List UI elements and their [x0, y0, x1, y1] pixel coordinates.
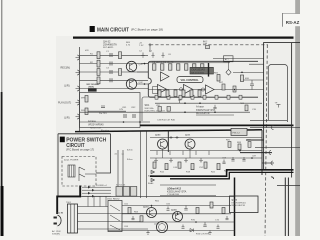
svg-text:KSDN74PD4U: KSDN74PD4U — [232, 202, 247, 204]
svg-text:Qn10: Qn10 — [143, 206, 149, 208]
transformer wire sec 4 — [78, 228, 149, 230]
svg-text:T601: T601 — [66, 202, 72, 204]
input connector bus wire — [79, 47, 81, 132]
transformer wire sec 3 — [78, 221, 141, 223]
svg-text:KSD1UHA0Y0TA: KSD1UHA0Y0TA — [167, 191, 187, 194]
wire right low — [240, 89, 264, 91]
heavy mains wire L shape — [57, 186, 80, 215]
right side signal box — [268, 65, 287, 123]
power switch 3 gang box a — [116, 187, 122, 197]
transistor Q605 — [173, 212, 183, 222]
mains vertical drops b — [93, 196, 95, 206]
section B frame — [58, 134, 111, 196]
diode row wire 1 — [82, 186, 111, 188]
resistor Rc3 — [196, 208, 199, 214]
dashed board outline right vertical — [265, 45, 267, 236]
transformer wire sec 1 — [78, 206, 109, 208]
capacitor C101 — [110, 53, 112, 57]
svg-text:Δ7mv: Δ7mv — [127, 158, 133, 161]
resistor R101 — [97, 52, 100, 59]
diode d24 — [92, 195, 95, 198]
svg-text:AC IN: AC IN — [57, 212, 63, 215]
resistor Rc2 — [140, 216, 143, 222]
svg-text:C33 R44 C37 R46: C33 R44 C37 R46 — [157, 120, 176, 122]
stub b3 — [182, 151, 184, 155]
VR trimmer 2 — [167, 107, 170, 112]
resistor Rb4 — [191, 164, 194, 170]
b section wire row 2 — [150, 157, 262, 159]
wire rec second — [80, 63, 149, 65]
svg-text:RS-AZ: RS-AZ — [286, 20, 300, 25]
svg-text:Resistor: Resistor — [101, 129, 109, 132]
main IC outline U1 — [148, 61, 258, 97]
svg-text:12A: 12A — [203, 42, 207, 45]
stub b1 — [156, 151, 158, 155]
connector jack J3 — [76, 86, 80, 91]
header A marker square — [90, 26, 95, 32]
varistor diamond D1 — [226, 70, 231, 76]
page left edge line — [1, 0, 3, 236]
power transformer winding bars — [71, 204, 74, 233]
transistor Q605 internals — [176, 214, 180, 220]
junction dot rlow — [234, 89, 236, 91]
junction dot q604 — [151, 205, 153, 207]
wire play low — [80, 121, 151, 123]
junction dot play low b — [139, 121, 141, 123]
chip function block 1 — [190, 67, 213, 74]
resistor R211 — [241, 75, 244, 82]
capacitor Cd4 — [217, 225, 220, 229]
op-amp A1 — [161, 72, 170, 81]
right wire row y147 — [255, 146, 300, 148]
b section wire row 1 — [150, 150, 262, 152]
power bus wire pair c — [140, 132, 142, 199]
IC bottom pin stub 8 — [239, 95, 242, 99]
IC bottom pin stub 1 — [155, 95, 158, 99]
right cluster junction dot — [239, 150, 241, 152]
zener diode bottom — [190, 229, 193, 232]
stub q604 — [151, 206, 153, 208]
wire right mid 1 — [213, 58, 264, 60]
IC top pin row resistor r2 — [161, 64, 164, 70]
svg-text:CXA1522AS: CXA1522AS — [191, 69, 205, 72]
junction dot play low a — [123, 121, 125, 123]
svg-text:MAIN CIRCUIT: MAIN CIRCUIT — [97, 27, 129, 33]
chip function block 2 — [177, 77, 203, 83]
svg-text:REGULATOR: REGULATOR — [196, 112, 210, 115]
op-amp A4 — [206, 85, 215, 94]
svg-text:(L/R): (L/R) — [64, 84, 70, 87]
mid resistor row R304 — [182, 90, 185, 97]
diode d21 — [88, 186, 91, 189]
stub r331 — [211, 202, 213, 206]
heavy power line step upper — [150, 170, 294, 176]
right cluster cap Ce1 — [231, 157, 234, 161]
section divider heavy line left — [75, 130, 262, 132]
ground symbol g2 — [169, 158, 173, 162]
power switch 3 gang box b — [123, 187, 129, 197]
junction dot mid2 — [199, 102, 201, 104]
connector jack J1 — [76, 55, 80, 60]
svg-text:(P.C.Board on page 17): (P.C.Board on page 17) — [66, 148, 94, 152]
ground symbol g4 — [199, 158, 203, 162]
diode row wire 4 — [82, 195, 111, 197]
regulator label underline — [196, 114, 234, 116]
resistor Rc1 — [128, 208, 131, 214]
mid resistor row R301 — [158, 90, 161, 97]
svg-text:Qn04: Qn04 — [171, 208, 177, 211]
transistor Q12 emitter stub — [189, 149, 191, 158]
capacitor Cc1 — [184, 206, 187, 211]
svg-text:50/60Hz: 50/60Hz — [52, 233, 60, 235]
wire play mid — [88, 110, 126, 112]
svg-text:900744th: 900744th — [145, 107, 155, 110]
wire into right vertical — [249, 63, 264, 65]
op-amp A2 — [158, 85, 167, 95]
capacitor C202 to ground — [151, 53, 154, 58]
svg-text:1S1588 ×4: 1S1588 ×4 — [96, 184, 107, 187]
mid resistor row R306 — [198, 90, 201, 97]
stub b4 — [195, 151, 197, 155]
junction dot bus222 — [195, 221, 197, 223]
capacitor C104 — [110, 78, 112, 82]
right wire row y127 — [250, 127, 300, 129]
transistor Q11 emitter stub — [162, 149, 164, 158]
TP stub mid — [178, 100, 181, 103]
right cluster resistor Re3 — [248, 142, 251, 148]
resistor R213 — [233, 86, 236, 92]
IC left pin wire 2 — [137, 71, 149, 73]
diode Db2 — [151, 178, 155, 182]
svg-text:FET AMPL: FET AMPL — [103, 46, 114, 49]
header B marker square — [60, 137, 65, 143]
right border vertical wire — [291, 43, 293, 178]
resistor Rb3 — [178, 162, 181, 168]
relay wire out — [85, 173, 96, 175]
right bottom wire — [277, 185, 300, 187]
transistor Q1 internals — [130, 64, 134, 72]
IC bottom pin stub 2 — [167, 95, 170, 99]
svg-text:S1 S2 S3: S1 S2 S3 — [116, 185, 126, 187]
connector jack J2 — [76, 70, 80, 75]
wire rec third — [80, 71, 149, 73]
resistor R103 — [97, 69, 100, 76]
resistor R210 — [217, 75, 220, 82]
rectifier block box — [108, 201, 122, 232]
wire dashed feed down — [149, 45, 151, 52]
capacitor Cd3 — [182, 225, 185, 229]
capacitor C110 — [101, 106, 105, 108]
svg-text:MIC SIGNAL: MIC SIGNAL — [87, 83, 101, 86]
op-amp A3 — [184, 85, 193, 95]
svg-text:Δ7em: Δ7em — [127, 149, 133, 152]
regulator output stub — [243, 213, 245, 231]
mid resistor row R303 — [174, 90, 177, 97]
svg-text:KSDN7UA0Y0TA: KSDN7UA0Y0TA — [196, 109, 216, 112]
connector jack J5 — [76, 114, 80, 119]
play section box — [80, 93, 141, 128]
power bus wire pair d — [146, 132, 148, 199]
transformer wire sec 2 — [78, 213, 149, 215]
power bus wire pair b — [122, 150, 124, 187]
right vertical rail b — [287, 178, 289, 237]
svg-text:Δ5A4: Δ5A4 — [148, 182, 154, 185]
IC top pin row resistor r4 — [177, 64, 180, 70]
mid resistor row R305 — [190, 90, 193, 97]
resistor R110 — [85, 96, 88, 103]
transistor Q2 internals — [130, 81, 134, 89]
resistor Rc4 — [210, 202, 213, 208]
right wire row y140 — [246, 139, 264, 141]
right cluster junction dot2 — [251, 157, 253, 159]
wire op-amp out row — [193, 88, 206, 90]
rectifier internal diagonals — [110, 205, 120, 230]
svg-text:(L/R): (L/R) — [64, 116, 70, 119]
mains vertical drops a — [87, 196, 89, 206]
right wire row y163 — [262, 162, 274, 164]
IC bottom pin stub 4 — [191, 95, 194, 99]
transistor Q606 inner — [159, 224, 166, 231]
page left edge darkest bottom band — [1, 186, 4, 236]
IC top pin row resistor r6 — [193, 64, 196, 70]
wire IC top bus — [149, 62, 231, 64]
resistor R102 — [97, 60, 100, 67]
transistor Q12 circle — [185, 139, 195, 149]
attenuator box ATT — [224, 56, 234, 62]
AC plug prong lower — [54, 223, 57, 225]
mains vertical drops c — [99, 196, 101, 206]
wire att down — [228, 62, 230, 70]
heavy power line step lower — [170, 172, 294, 178]
svg-text:4(C)1 POWER: 4(C)1 POWER — [64, 159, 79, 161]
resistor Rc5 — [222, 208, 225, 214]
capacitor C102 — [110, 62, 112, 66]
resistor R105 — [119, 52, 122, 59]
junction dot ic left2 — [144, 83, 146, 85]
right vertical rail a — [284, 178, 286, 237]
capacitor C330 — [213, 105, 216, 109]
relay contact switch — [79, 167, 85, 181]
diode row wire 2 — [82, 189, 111, 191]
right cluster cap Ce2 — [242, 157, 245, 161]
wire rec fourth — [80, 79, 149, 81]
svg-text:C/N: C/N — [119, 109, 123, 111]
model number box RS-A2 — [282, 14, 300, 27]
power bus wire pair a — [117, 150, 119, 187]
svg-text:SD1: SD1 — [145, 104, 150, 107]
junction cross b2 — [176, 136, 179, 139]
IC bottom pin stub 3 — [179, 95, 182, 99]
junction dot mid1 — [184, 102, 186, 104]
junction dot mid3 — [184, 111, 186, 113]
IC left pin wire 1 — [141, 63, 149, 65]
relay coil bars — [70, 165, 74, 177]
ground symbol g3 — [184, 158, 188, 162]
ground bottom 1 — [146, 231, 149, 235]
resistor R331 — [245, 105, 248, 111]
IC left pin wire 3 — [137, 83, 149, 85]
junction dot ic left — [144, 63, 146, 65]
power switch 3 gang box c — [130, 187, 136, 197]
wire mic row — [80, 88, 149, 90]
transistor Q12 internals — [188, 141, 192, 148]
resistor Rb6 — [217, 164, 220, 170]
svg-text:(P.C.Board on page 18): (P.C.Board on page 18) — [131, 28, 163, 32]
svg-text:7.5V: 7.5V — [139, 45, 144, 47]
resistor Rb2 — [165, 164, 168, 170]
relay dashed box — [62, 157, 96, 187]
mid wire bus 2 — [80, 111, 250, 113]
transistor Q11 circle — [158, 139, 168, 149]
page right edge gray band — [295, 0, 300, 236]
IC top pin row resistor r7 — [201, 64, 204, 70]
mid wire bus 1 — [155, 102, 262, 104]
transistor Q1 circle — [126, 61, 136, 71]
junction cross at dashed line start — [149, 43, 152, 46]
svg-text:Qe11: Qe11 — [185, 135, 191, 137]
hook connector end — [271, 177, 274, 179]
svg-text:PW 2.2: PW 2.2 — [233, 132, 241, 134]
svg-text:Qn05: Qn05 — [232, 200, 238, 202]
thick bus stub right of chip — [208, 63, 210, 77]
wire right mid 2 — [233, 71, 264, 73]
wire op-amp row — [149, 88, 184, 90]
power transformer T1 core — [68, 204, 78, 233]
capacitor Cd1 — [132, 216, 135, 220]
diode Db1 — [151, 170, 155, 174]
resistor Rb1 — [153, 162, 156, 168]
main circuit top heavy border line — [73, 36, 294, 38]
svg-text:Qe03: Qe03 — [155, 135, 161, 137]
section divider heavy line — [140, 124, 294, 126]
scan veil over circuit area — [56, 36, 296, 236]
small box SW right — [231, 128, 247, 135]
IC top pin row resistor r1 — [153, 64, 156, 70]
capacitor Cd2 — [167, 207, 170, 211]
stub b5 — [208, 151, 210, 155]
IC bottom pin stub 5 — [203, 95, 206, 99]
svg-text:Pid 7F3: Pid 7F3 — [99, 113, 107, 115]
svg-text:CN2: CN2 — [131, 107, 136, 109]
wire op-amp out row 2 — [214, 89, 240, 91]
svg-text:D601 RB152: D601 RB152 — [107, 199, 120, 201]
power section box right vertical — [261, 130, 263, 175]
svg-text:VR20YHP540: VR20YHP540 — [88, 123, 104, 126]
transistor Q2 circle — [126, 79, 136, 89]
svg-text:VT4GB/2SB: VT4GB/2SB — [167, 194, 179, 196]
op-amp A3 input circle — [179, 88, 182, 91]
transistor Q11 internals — [161, 141, 165, 148]
power section box left vertical — [167, 130, 169, 152]
flat cable upper line — [160, 184, 216, 186]
transistor Q604 — [147, 208, 157, 218]
capacitor Cb7 — [222, 160, 225, 164]
svg-text:RESISTOR: RESISTOR — [90, 127, 102, 129]
diode d23 — [88, 192, 91, 195]
svg-text:REC(IN): REC(IN) — [61, 67, 71, 70]
b section top wire — [150, 137, 262, 139]
stub b2 — [169, 151, 171, 155]
regulator box Q605 — [230, 196, 259, 213]
op-amp A2 feedback wire — [153, 87, 158, 94]
top right supply wire — [264, 43, 300, 170]
right wire row y152 — [240, 152, 272, 154]
ground bottom 2 — [208, 231, 211, 235]
resistor R212 — [222, 84, 225, 90]
heavy vertical drop power — [234, 178, 236, 237]
IC top pin row resistor r5 — [185, 64, 188, 70]
resistor R104 — [97, 77, 100, 84]
svg-text:Qn06: Qn06 — [154, 223, 160, 225]
bottom bus wire 1 — [122, 205, 231, 207]
IC top pin row resistor r3 — [169, 64, 172, 70]
relay coil symbol — [68, 165, 75, 177]
transistor Q606 double circle — [156, 221, 167, 232]
right cluster resistor Re1 — [228, 142, 231, 148]
junction cross b1 — [170, 136, 173, 139]
svg-text:VOL CONTROL: VOL CONTROL — [181, 79, 200, 82]
connector plug symbol p2 — [269, 151, 271, 155]
connector jack J4 — [76, 100, 80, 105]
dashed board outline top — [150, 44, 268, 46]
capacitor C210 — [250, 80, 254, 90]
diode row wire 3 — [82, 192, 111, 194]
junction dot right mid — [241, 72, 243, 74]
svg-text:(MIX): (MIX) — [89, 86, 95, 88]
capacitor C112 — [133, 114, 135, 118]
transistor Q604 internals — [150, 210, 154, 216]
capacitor Cc2 — [203, 222, 206, 227]
svg-text:2SA498GTA: 2SA498GTA — [103, 43, 117, 46]
capacitor C103 — [110, 70, 112, 74]
op-amp A4 input circle — [201, 88, 204, 91]
stub q605 — [177, 212, 179, 214]
resistor R106 — [119, 69, 122, 76]
long bottom bus wire — [80, 195, 234, 197]
IC bottom pin stub 6 — [215, 95, 218, 99]
svg-text:R74 C76 R78: R74 C76 R78 — [196, 234, 210, 236]
bottom bus wire 2 — [122, 213, 231, 215]
capacitor C111 — [124, 114, 126, 118]
flat cable lower line — [160, 195, 216, 197]
resistor Rb5 — [204, 162, 207, 168]
connector plug symbol p3 — [271, 161, 273, 165]
junction dot q605 — [177, 213, 179, 215]
svg-text:REGULATOR: REGULATOR — [232, 204, 246, 207]
page left edge dark lower band — [1, 92, 3, 188]
svg-text:CN1: CN1 — [122, 107, 127, 109]
AC plug body — [58, 215, 62, 226]
electric circuit box — [142, 97, 166, 121]
mains vertical drops d — [105, 196, 107, 206]
right wire row y120 — [250, 119, 287, 121]
ground symbol g1 — [154, 158, 158, 162]
mid resistor row R302 — [166, 90, 169, 97]
svg-text:PLAY(OUT): PLAY(OUT) — [58, 101, 71, 104]
AC plug prong upper — [54, 217, 57, 219]
svg-text:AC 120V: AC 120V — [52, 230, 61, 233]
svg-text:NR SYSTEM: NR SYSTEM — [191, 72, 204, 74]
capacitor C201 to ground — [141, 53, 144, 58]
capacitor Cd5 — [226, 216, 229, 220]
mic block dark component — [88, 88, 97, 91]
resistor R111 — [85, 108, 88, 115]
bottom bus wire 4 — [108, 230, 235, 232]
wire right mid 3 — [240, 79, 264, 81]
connector plug symbol p1 — [272, 126, 274, 130]
wire rec top — [80, 54, 149, 56]
test point symbol TP — [277, 105, 281, 108]
